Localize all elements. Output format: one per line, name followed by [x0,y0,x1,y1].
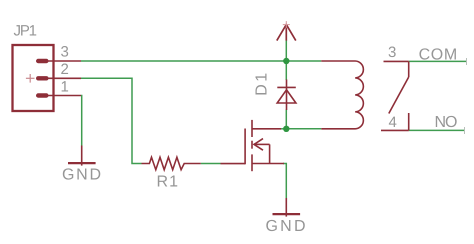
JP1 plus marker [26,74,35,83]
wire net drain node row [280,110,321,129]
svg-text:NO: NO [435,114,458,131]
pin 3 lead [384,60,409,62]
svg-text:2: 2 [61,61,69,78]
relay coil K1 [321,61,363,129]
svg-text:4: 4 [389,114,397,131]
source lead [252,163,284,165]
gate lead [221,163,246,165]
junction node 1 (VCC rail) [283,58,289,64]
resistor R1 [142,157,201,170]
transistor Q1 (n-mosfet) [221,120,285,171]
wire net pin1 to GND [80,96,83,146]
channel dash top [251,120,253,137]
ground symbol 1 (below JP1) [68,146,96,166]
net end tick COM [466,58,468,65]
relay contact COM/NO [381,61,409,130]
supply arrow VCC [277,25,296,41]
wire net pin2 to R1 [81,78,142,163]
channel dash bottom [251,154,253,171]
svg-text:GND: GND [266,218,306,235]
svg-text:R1: R1 [157,173,179,190]
switch blade [389,77,409,114]
ground symbol 2 (below mosfet) [273,198,301,217]
svg-text:3: 3 [388,44,396,61]
svg-text:JP1: JP1 [14,23,38,40]
contact stub bottom [408,113,410,130]
bulk arrow [254,139,263,151]
net end tick NO [464,127,466,134]
svg-text:GND: GND [62,166,101,183]
drain lead [252,128,281,130]
VCC origin cross [283,21,290,28]
contact stub top [408,61,410,77]
wire net VCC rail (pin3 to junction to coil) [81,40,321,80]
junction node 2 (drain node) [283,126,289,132]
bulk to source [269,144,271,163]
svg-text:COM: COM [419,46,458,63]
diode D1 [277,80,296,111]
pin 4 lead [381,129,409,131]
svg-text:1: 1 [61,78,69,95]
channel dash middle [251,141,253,149]
gate plate [244,129,246,165]
wire net source to GND [283,164,286,199]
svg-text:D1: D1 [254,73,271,96]
wire net R1 to gate [201,163,221,165]
connector JP1 [13,45,82,111]
wire net NO [409,129,465,131]
svg-text:3: 3 [61,44,69,61]
wire net COM [409,60,467,62]
